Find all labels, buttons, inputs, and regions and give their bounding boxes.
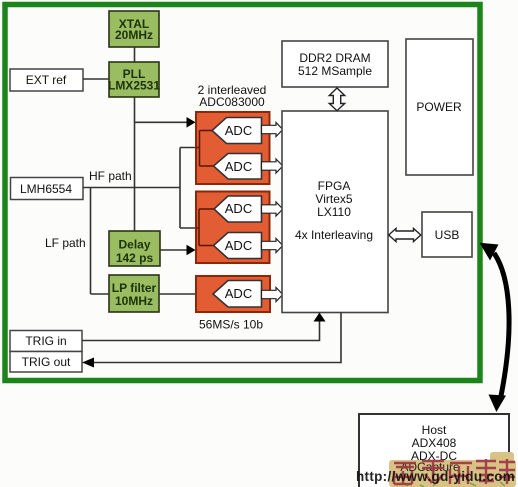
svg-text:ADX408: ADX408 (412, 436, 457, 450)
ADC output arrow 1 (262, 123, 283, 137)
svg-text:ADC: ADC (225, 159, 252, 174)
svg-text:ADC: ADC (225, 123, 252, 138)
TRIG out block (10, 352, 82, 373)
arrowhead top (to USB) (480, 243, 499, 261)
ADC A3 pentagon (214, 196, 262, 222)
wire FPGA to TRIG out (93, 313, 341, 363)
group 1 internal wires (196, 131, 214, 167)
svg-text:EXT ref: EXT ref (26, 73, 67, 87)
wire pll down to delay (134, 97, 136, 232)
watermark tan blobs (389, 452, 516, 487)
svg-text:LP filter: LP filter (112, 281, 157, 295)
svg-text:http://www.gd-yidu.com: http://www.gd-yidu.com (356, 469, 515, 484)
watermark green accents (402, 481, 505, 487)
wire HF path (83, 187, 180, 189)
svg-text:LMH6554: LMH6554 (20, 182, 72, 196)
ADC A4 pentagon (214, 233, 262, 259)
svg-text:142 ps: 142 ps (116, 251, 154, 265)
TRIG in block (10, 331, 82, 352)
double arrow FPGA-USB (389, 228, 421, 241)
wire TRIG in to FPGA (82, 321, 320, 341)
arrowhead into TRIG out (82, 358, 94, 368)
svg-text:LX110: LX110 (317, 205, 351, 219)
arrowhead clock into group 1 (187, 117, 196, 128)
ADC A2 pentagon (214, 154, 262, 180)
svg-text:ADC: ADC (225, 201, 252, 216)
svg-text:Host: Host (422, 423, 447, 437)
svg-text:ADC: ADC (225, 286, 252, 301)
group 2 internal wires (196, 209, 214, 246)
curved double arrow USB-host (494, 253, 509, 396)
pll block LMX2531 (108, 62, 160, 97)
wire LP filter to ADC5 (159, 293, 213, 295)
svg-text:TRIG out: TRIG out (22, 355, 71, 369)
main green frame (5, 5, 480, 381)
svg-text:512 MSample: 512 MSample (298, 64, 372, 78)
arrowhead bottom (to host) (489, 395, 507, 413)
svg-text:USB: USB (435, 228, 460, 242)
LP filter block (109, 275, 159, 312)
ADC A5 pentagon (213, 281, 262, 308)
svg-text:POWER: POWER (416, 100, 462, 114)
ADC group 1 package (196, 112, 270, 184)
svg-text:TRIG in: TRIG in (25, 334, 66, 348)
svg-text:56MS/s 10b: 56MS/s 10b (199, 318, 263, 332)
host block (359, 414, 509, 487)
svg-text:FPGA: FPGA (318, 179, 351, 193)
wire LF branch vertical (90, 188, 92, 295)
svg-text:20MHz: 20MHz (115, 28, 153, 42)
LMH6554 block (11, 178, 84, 200)
ADC output arrow 4 (262, 239, 283, 253)
ADC A1 pentagon (212, 118, 262, 144)
svg-text:DDR2 DRAM: DDR2 DRAM (299, 51, 370, 65)
ext ref block (10, 69, 83, 91)
svg-text:Virtex5: Virtex5 (315, 192, 352, 206)
delay block (109, 231, 160, 266)
ADC group 3 package (196, 276, 270, 312)
ADC group 2 package (196, 192, 270, 264)
USB block (422, 212, 472, 257)
wire delay out (160, 249, 188, 251)
arrowhead clock into group 2 (187, 245, 196, 256)
svg-text:HF path: HF path (89, 169, 132, 183)
xtal block X1 (109, 11, 159, 47)
ADC output arrow 3 (262, 202, 283, 216)
svg-text:ADC083000: ADC083000 (199, 95, 265, 109)
svg-text:4x Interleaving: 4x Interleaving (295, 228, 373, 242)
arrowhead TRIG in into FPGA (314, 313, 326, 322)
wire xtal to pll (134, 47, 136, 62)
wire LF into LP filter (91, 293, 110, 295)
watermark red glyphs (394, 459, 515, 484)
wire clock branch to ADC group 1 (135, 121, 189, 123)
DDR2 DRAM block (282, 41, 388, 87)
wire HF bracket vertical (179, 148, 181, 229)
svg-text:ADC: ADC (225, 238, 252, 253)
FPGA block U1 (282, 111, 388, 313)
wire bracket stub to group 1 (180, 147, 200, 149)
svg-text:LF path: LF path (45, 236, 86, 250)
ADC output arrow 2 (262, 159, 283, 173)
ADC output arrow 5 (262, 288, 283, 302)
double arrow DDR2-FPGA (329, 88, 344, 111)
svg-text:LMX2531: LMX2531 (108, 79, 160, 93)
svg-text:Delay: Delay (118, 238, 150, 252)
wire ext ref to pll (83, 78, 109, 80)
svg-text:10MHz: 10MHz (115, 294, 153, 308)
POWER block (406, 39, 473, 175)
wire bracket stub to group 2 (180, 227, 199, 229)
